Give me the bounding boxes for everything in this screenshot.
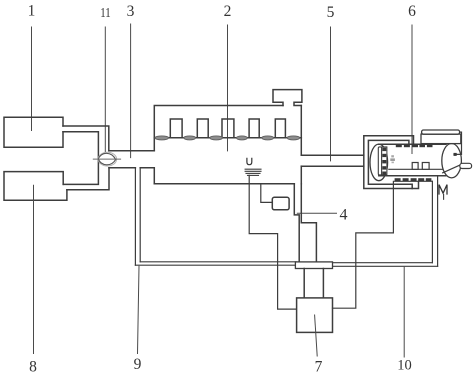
controller box 7 xyxy=(297,298,333,333)
riser left from bar to box 7 xyxy=(303,269,305,298)
cylinder stub 2 xyxy=(197,119,208,138)
M motor mark tick xyxy=(443,195,445,200)
U sensor stack line 3 xyxy=(246,172,260,174)
machine 6 cylinder bottom edge xyxy=(379,175,446,177)
label 8 xyxy=(29,359,37,376)
U sensor stack line 2 xyxy=(245,170,261,172)
gasket ellipse 6 xyxy=(287,136,300,140)
duct box1 to valve, outer wall xyxy=(63,132,98,185)
leader line 3 xyxy=(130,24,132,158)
riser pair right, inner xyxy=(437,176,439,266)
label 7 xyxy=(315,358,323,375)
exhaust pipe 5 bottom wall xyxy=(301,165,364,167)
terminal cap bar xyxy=(422,130,460,134)
machine 6 left end cap ellipse xyxy=(370,144,388,181)
bottom bus left segment bottom line xyxy=(135,264,296,266)
machine 6 diagonal to shaft xyxy=(443,164,462,172)
wire from machine 6 to box 7 right xyxy=(333,181,394,308)
bottom bus right segment bottom line xyxy=(333,265,438,267)
svg-text:2: 2 xyxy=(224,3,232,20)
svg-text:11: 11 xyxy=(100,6,111,21)
leader line 8 xyxy=(33,185,35,353)
label 4 xyxy=(340,206,348,223)
engine 2 right edge upper xyxy=(300,106,302,156)
bracket outer wall around machine 6 xyxy=(364,136,419,189)
pipe 3 bottom wall right part xyxy=(140,168,154,184)
machine 6 shaft xyxy=(460,163,472,168)
leader line 7 xyxy=(315,315,318,356)
label 1 xyxy=(28,2,36,19)
svg-text:5: 5 xyxy=(327,4,335,21)
U sensor stack line 4 xyxy=(248,174,259,176)
svg-text:3: 3 xyxy=(127,3,135,20)
svg-text:1: 1 xyxy=(28,2,36,19)
machine 6 internal square a xyxy=(412,163,418,170)
return pipe 9 left wall xyxy=(134,168,136,266)
cylinder stub 3 xyxy=(222,119,234,138)
commutator bar xyxy=(378,147,381,175)
stator hatch top row xyxy=(396,144,433,147)
svg-text:8: 8 xyxy=(29,359,37,376)
gasket ellipse 1 xyxy=(155,136,169,140)
duct box1 to valve, inner wall xyxy=(63,126,109,151)
under-hatch line machine 6 xyxy=(395,180,433,182)
commutator dark segment 2 xyxy=(382,154,386,157)
svg-text:10: 10 xyxy=(397,358,412,374)
bottom bus right segment top line xyxy=(333,262,433,264)
U sensor symbol xyxy=(247,158,252,164)
bottom bus left segment top line xyxy=(140,261,296,263)
svg-text:6: 6 xyxy=(408,3,416,20)
wire to sensor box 4 xyxy=(261,184,273,203)
machine 6 internal axis line xyxy=(389,168,443,170)
leader line 10 xyxy=(403,267,405,358)
valve 11 disc xyxy=(98,152,116,166)
valve 11 axis line xyxy=(93,158,120,160)
return pipe 9 right wall xyxy=(139,168,141,262)
riser right from bar to box 7 xyxy=(322,269,324,298)
label 9 xyxy=(134,356,142,373)
leader line 11 xyxy=(104,27,106,152)
M motor mark xyxy=(439,185,447,194)
label 3 xyxy=(127,3,135,20)
commutator dark segment 3 xyxy=(382,160,386,163)
terminal cap body on machine 6 xyxy=(421,134,461,144)
box 1 (air cleaner) xyxy=(4,117,63,147)
cylinder stub 4 xyxy=(249,119,259,138)
sensor box 4 xyxy=(272,197,289,210)
cap right wire xyxy=(454,132,462,154)
exhaust pipe 5 top wall xyxy=(301,154,364,156)
label 11 xyxy=(100,6,111,21)
machine 6 internal square b xyxy=(422,163,429,170)
label 10 xyxy=(397,358,412,374)
pipe 3 bottom wall left part xyxy=(109,167,135,169)
bracket inner wall around machine 6 xyxy=(368,140,412,188)
downpipe wall A from engine bottom xyxy=(294,184,299,262)
cap wire pad xyxy=(454,153,457,156)
stator hatch bottom row xyxy=(395,178,432,181)
commutator dark segment 5 xyxy=(382,172,386,175)
engine 2 top and left edge xyxy=(154,106,283,151)
wire from U sensor to box 7 xyxy=(249,175,296,309)
machine 6 right end cap ellipse xyxy=(442,144,462,178)
riser pair right, outer xyxy=(431,181,433,262)
downpipe wall B from engine right xyxy=(301,184,316,262)
leader line 5 xyxy=(330,27,332,161)
gasket ellipse 2 xyxy=(184,136,196,140)
box 8 (muffler) xyxy=(4,172,67,201)
engine 2 breather T-notch xyxy=(273,90,302,106)
svg-text:9: 9 xyxy=(134,356,142,373)
svg-text:7: 7 xyxy=(315,358,323,375)
leader line 4 xyxy=(297,212,336,214)
leader line 2 xyxy=(227,25,229,151)
engine 2 bottom edge xyxy=(154,183,294,185)
leader line 1 xyxy=(31,27,33,131)
cylinder stub 5 xyxy=(275,119,285,138)
commutator dark segment 4 xyxy=(382,166,386,169)
commutator segment column xyxy=(382,147,387,175)
leader line 6 xyxy=(411,25,413,154)
engine 2 cylinder base line xyxy=(154,137,301,139)
cylinder stub 1 xyxy=(170,119,182,138)
gasket ellipse 4 xyxy=(236,136,247,140)
pipe 3 top wall xyxy=(109,150,155,152)
gasket ellipse 5 xyxy=(262,136,274,140)
leader line 9 xyxy=(138,266,140,353)
label 5 xyxy=(327,4,335,21)
gray terminal mark xyxy=(390,155,395,163)
label 6 xyxy=(408,3,416,20)
commutator dark segment 1 xyxy=(382,148,386,152)
machine 6 cylinder top edge xyxy=(379,143,446,145)
duct box8 outer wall xyxy=(67,168,109,190)
U sensor stack line 1 xyxy=(245,168,261,170)
engine 2 right edge lower xyxy=(300,166,302,184)
gasket ellipse 3 xyxy=(210,136,223,140)
svg-text:4: 4 xyxy=(340,206,348,223)
label 2 xyxy=(224,3,232,20)
junction bar above box 7 xyxy=(295,262,332,269)
